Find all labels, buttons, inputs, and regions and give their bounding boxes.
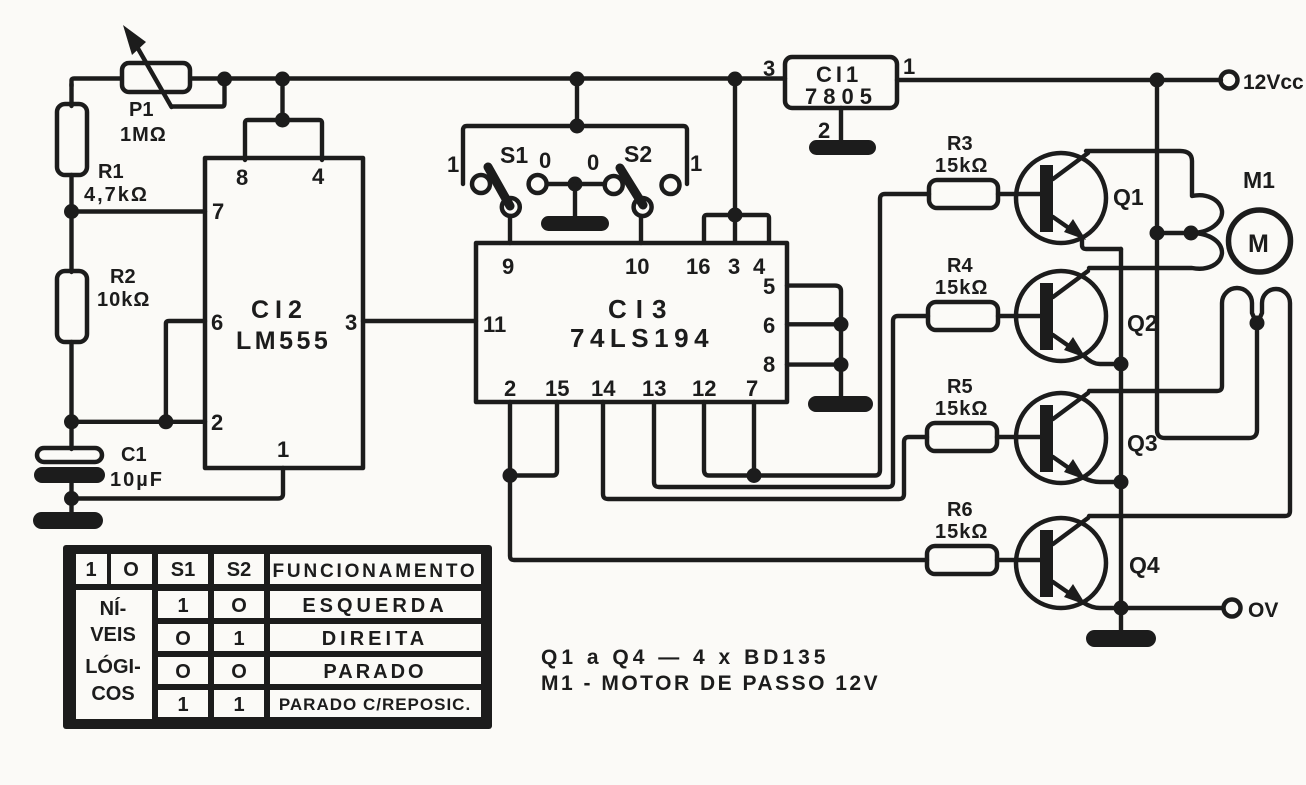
- svg-text:1: 1: [690, 151, 702, 176]
- svg-text:1: 1: [233, 628, 244, 650]
- svg-text:DIREITA: DIREITA: [322, 628, 429, 650]
- wire R3 to Q1 base: [998, 192, 1040, 196]
- svg-text:74LS194: 74LS194: [570, 323, 714, 353]
- svg-text:6: 6: [763, 313, 775, 338]
- table cell header S1: [158, 554, 208, 584]
- wire supply drop to switch bracket: [575, 79, 579, 126]
- table cell header O: [111, 554, 152, 584]
- svg-text:CI2: CI2: [251, 296, 308, 324]
- resistor R3: [929, 180, 998, 208]
- wire left vertical: [69, 84, 73, 106]
- node dot pin7 junction: [64, 204, 79, 219]
- node dot pin16-4 bracket junction: [728, 208, 743, 223]
- table row4 values: [177, 694, 471, 716]
- svg-text:PARADO: PARADO: [323, 661, 426, 683]
- node dot switch bracket junction: [570, 119, 585, 134]
- svg-text:2: 2: [211, 410, 223, 435]
- svg-text:7: 7: [746, 376, 758, 401]
- transistor Q4: [1016, 518, 1121, 608]
- node dot pin6-pin2 junction: [158, 414, 173, 429]
- svg-text:3: 3: [763, 56, 775, 81]
- wire S1 pole to CI3 pin 9: [508, 216, 512, 243]
- svg-text:10µF: 10µF: [110, 469, 164, 491]
- switch S2 pole contact: [634, 198, 652, 216]
- wire top supply rail left: [72, 79, 122, 87]
- svg-text:3: 3: [728, 254, 740, 279]
- svg-text:0: 0: [587, 150, 599, 175]
- node dot motor common AB: [1184, 226, 1199, 241]
- potentiometer P1: [122, 25, 225, 107]
- wire CI3 pin15 to pin2 bus: [510, 402, 557, 476]
- wire 0 node to ground: [573, 184, 577, 217]
- wire Q4 collector to motor winding D: [1089, 289, 1290, 516]
- wire CI3 pin8 to ground bus: [787, 362, 841, 366]
- svg-text:3: 3: [345, 310, 357, 335]
- svg-text:M1 - MOTOR DE PASSO 12V: M1 - MOTOR DE PASSO 12V: [541, 672, 880, 695]
- svg-text:LM555: LM555: [236, 327, 331, 355]
- wire motor common AB to 12V line: [1157, 231, 1191, 235]
- svg-text:1: 1: [85, 559, 96, 581]
- svg-text:R1: R1: [98, 161, 124, 183]
- svg-text:VEIS: VEIS: [90, 624, 136, 646]
- switch S1 fixed contact 0: [529, 175, 547, 193]
- resistor R1: [57, 104, 87, 175]
- terminal 0V: [1224, 600, 1241, 617]
- svg-text:1: 1: [177, 694, 188, 716]
- svg-text:Q1: Q1: [1113, 184, 1144, 210]
- wire R2 to C1: [69, 342, 73, 449]
- svg-text:COS: COS: [91, 683, 134, 705]
- svg-text:O: O: [175, 628, 191, 650]
- table cell header FUNCIONAMENTO: [270, 554, 481, 584]
- wire supply drop to bracket: [280, 79, 284, 120]
- node dot 12Vcc rail junction: [1150, 73, 1165, 88]
- wire CI3 pins 16-4 bracket: [704, 215, 769, 242]
- wire 12V drop to CI3 pin 3: [733, 79, 737, 242]
- svg-text:O: O: [231, 661, 247, 683]
- svg-text:FUNCIONAMENTO: FUNCIONAMENTO: [273, 561, 478, 582]
- node dot bracket junction: [275, 113, 290, 128]
- svg-text:2: 2: [504, 376, 516, 401]
- resistor R2: [57, 271, 87, 342]
- svg-text:M1: M1: [1243, 167, 1275, 193]
- wire R1 to R2: [69, 175, 73, 272]
- wire R6 to Q4 base: [997, 558, 1040, 562]
- node dot pin8 ground junction: [834, 357, 849, 372]
- svg-text:2: 2: [818, 118, 830, 143]
- svg-text:PARADO C/REPOSIC.: PARADO C/REPOSIC.: [279, 695, 471, 714]
- op-amp CI2 LM555 box: [205, 158, 363, 468]
- svg-text:R5: R5: [947, 376, 973, 398]
- transistor Q1: [1016, 153, 1121, 249]
- wire CI2 pin1 to C1 node: [72, 468, 284, 499]
- wire C1 bottom to ground: [69, 483, 73, 512]
- svg-text:8: 8: [763, 352, 775, 377]
- node dot pin6 ground junction: [834, 317, 849, 332]
- svg-text:15kΩ: 15kΩ: [935, 521, 988, 543]
- table row2 values: [175, 628, 428, 650]
- wire CI2 pin3 to CI3 pin11: [363, 319, 476, 323]
- switch S2 lever: [620, 168, 643, 205]
- wire CI1 pin2 to ground: [839, 108, 843, 142]
- node dot CI2 supply junction: [275, 72, 290, 87]
- svg-text:4,7kΩ: 4,7kΩ: [84, 184, 149, 206]
- node dot motor common CD: [1250, 316, 1265, 331]
- svg-text:C1: C1: [121, 444, 147, 466]
- svg-text:Q3: Q3: [1127, 430, 1158, 456]
- switch S1 fixed contact 1: [472, 175, 490, 193]
- wire 0V: [1121, 606, 1223, 610]
- ground symbol below C1: [33, 512, 103, 529]
- table row1 values: [177, 595, 447, 617]
- wire CI2 reset bracket pins 8-4: [245, 120, 322, 160]
- svg-text:1MΩ: 1MΩ: [120, 124, 167, 146]
- svg-text:ESQUERDA: ESQUERDA: [302, 595, 447, 617]
- wire Q2 collector to motor winding B: [1089, 233, 1222, 269]
- resistor R5: [927, 423, 997, 451]
- table cells row3: [158, 657, 481, 684]
- wire rail to ground: [1119, 608, 1123, 632]
- wire to CI2 pin 7: [72, 209, 206, 213]
- node dot pin2-15 junction: [503, 468, 518, 483]
- svg-text:15: 15: [545, 376, 569, 401]
- svg-text:O: O: [123, 559, 139, 581]
- svg-text:7: 7: [212, 199, 224, 224]
- node dot Q2 emitter junction: [1114, 357, 1129, 372]
- voltage regulator CI1 7805 box: [785, 57, 897, 108]
- table row3 values: [175, 661, 426, 683]
- wire top supply rail: [191, 76, 785, 80]
- node dot pin2 junction left: [64, 414, 79, 429]
- resistor R6: [927, 546, 997, 574]
- motor M1: [1229, 210, 1291, 272]
- svg-text:M: M: [1248, 230, 1269, 258]
- IC CI3 74LS194 box: [476, 243, 787, 402]
- wire CI3 pin5 to ground bus: [787, 286, 841, 397]
- wire switch bracket: [463, 126, 687, 184]
- node dot 12V line winding junction: [1150, 226, 1165, 241]
- ground symbol CI1: [809, 140, 876, 155]
- wire Q1 collector to motor winding A: [1086, 151, 1222, 233]
- svg-text:15kΩ: 15kΩ: [935, 155, 988, 177]
- node dot switch supply junction: [570, 72, 585, 87]
- svg-text:1: 1: [233, 694, 244, 716]
- wire CI3 pin6 to ground bus: [787, 322, 841, 326]
- svg-text:1: 1: [903, 54, 915, 79]
- svg-text:9: 9: [502, 254, 514, 279]
- capacitor C1 bottom plate: [34, 467, 105, 483]
- ground symbol 0V: [1086, 630, 1156, 647]
- svg-text:14: 14: [591, 376, 616, 401]
- svg-text:Q1 a Q4 — 4 x BD135: Q1 a Q4 — 4 x BD135: [541, 646, 829, 669]
- capacitor C1 top plate: [37, 448, 102, 462]
- wire CI3 pin13 to R4: [654, 316, 928, 487]
- svg-text:R4: R4: [947, 255, 973, 277]
- node dot pin12-7 junction: [747, 468, 762, 483]
- svg-text:1: 1: [277, 437, 289, 462]
- wire CI3 pin2 down and right to R6: [510, 402, 927, 560]
- wire top supply rail right of CI1: [897, 78, 1221, 82]
- switch S1 pole contact: [502, 198, 520, 216]
- wire CI3 pin7 down: [752, 402, 756, 476]
- switch S2 fixed contact 0: [605, 176, 623, 194]
- node dot 0-contacts ground junction: [568, 177, 583, 192]
- svg-text:6: 6: [211, 310, 223, 335]
- svg-text:15kΩ: 15kΩ: [935, 398, 988, 420]
- node dot Q4 emitter 0V junction: [1114, 601, 1129, 616]
- transistor Q3: [1016, 393, 1121, 483]
- svg-text:LÓGI-: LÓGI-: [85, 654, 141, 678]
- svg-text:10kΩ: 10kΩ: [97, 289, 150, 311]
- svg-text:S2: S2: [227, 559, 251, 581]
- table cell niveis logicos: [76, 590, 152, 719]
- table logic levels frame: [63, 545, 492, 729]
- wire Q3 collector to motor winding C: [1089, 288, 1256, 391]
- svg-text:4: 4: [312, 164, 325, 189]
- svg-text:R6: R6: [947, 499, 973, 521]
- svg-text:13: 13: [642, 376, 666, 401]
- node dot Q3 emitter junction: [1114, 475, 1129, 490]
- svg-text:12: 12: [692, 376, 716, 401]
- svg-text:15kΩ: 15kΩ: [935, 277, 988, 299]
- svg-text:O: O: [175, 661, 191, 683]
- wire CI3 pin14 to R5: [603, 402, 927, 499]
- svg-text:8: 8: [236, 165, 248, 190]
- wire between 0 contacts: [547, 182, 605, 186]
- svg-text:R3: R3: [947, 133, 973, 155]
- wire motor common CD to 12V: [1157, 80, 1257, 438]
- svg-text:NÍ-: NÍ-: [100, 597, 127, 620]
- svg-text:S1: S1: [171, 559, 195, 581]
- node dot P1 wiper junction: [217, 72, 232, 87]
- svg-text:11: 11: [483, 312, 506, 337]
- svg-text:OV: OV: [1248, 599, 1278, 622]
- svg-text:R2: R2: [110, 266, 136, 288]
- svg-text:Q2: Q2: [1127, 310, 1158, 336]
- svg-text:1: 1: [447, 152, 459, 177]
- table cells row4: [158, 690, 481, 717]
- svg-text:Q4: Q4: [1129, 552, 1160, 578]
- switch S1 lever: [488, 167, 510, 206]
- svg-text:CI3: CI3: [608, 294, 675, 324]
- wire R5 to Q3 base: [997, 435, 1040, 439]
- svg-text:10: 10: [625, 254, 649, 279]
- svg-text:16: 16: [686, 254, 710, 279]
- terminal 12Vcc: [1221, 72, 1238, 89]
- transistor Q2: [1016, 271, 1121, 364]
- table cell header S2: [214, 554, 264, 584]
- node dot 12V drop junction on rail: [728, 72, 743, 87]
- switch S2 fixed contact 1: [662, 176, 680, 194]
- node dot C1 ground junction: [64, 491, 79, 506]
- ground symbol CI3: [808, 396, 873, 412]
- svg-text:12Vcc: 12Vcc: [1243, 71, 1304, 94]
- svg-text:0: 0: [539, 148, 551, 173]
- wire S2 pole to CI3 pin 10: [639, 216, 643, 243]
- wire to CI2 pin 6: [166, 321, 205, 422]
- svg-text:1: 1: [177, 595, 188, 617]
- wire R4 to Q2 base: [998, 314, 1040, 318]
- table text niveis logicos: [85, 597, 141, 705]
- resistor R4: [928, 302, 998, 330]
- wire emitter rail: [1119, 249, 1123, 608]
- svg-text:S1: S1: [500, 142, 528, 168]
- svg-text:O: O: [231, 595, 247, 617]
- wire CI3 pin12 to R3: [704, 194, 929, 476]
- ground symbol switches: [541, 216, 609, 231]
- table cells row1: [158, 591, 481, 618]
- table cells row2: [158, 624, 481, 651]
- wire to CI2 pin 2: [72, 420, 206, 424]
- svg-text:P1: P1: [129, 99, 153, 121]
- table cell header 1: [76, 554, 107, 584]
- svg-text:5: 5: [763, 274, 775, 299]
- svg-text:7805: 7805: [805, 84, 878, 109]
- svg-text:S2: S2: [624, 141, 652, 167]
